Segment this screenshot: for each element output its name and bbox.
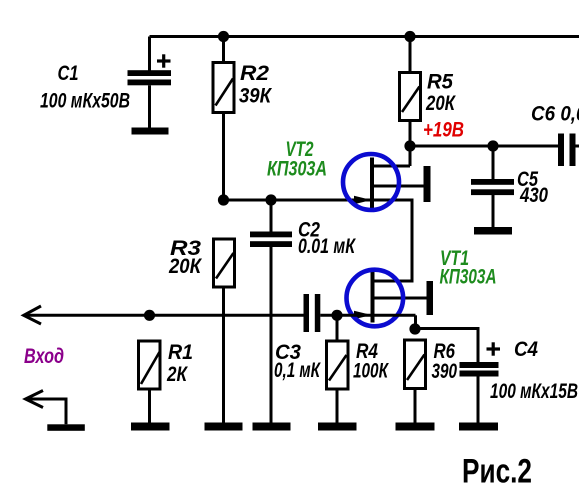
wire: VT1 source down to output node — [414, 315, 417, 329]
resistor R4 — [327, 341, 349, 389]
wire: C2 bottom lead — [270, 247, 273, 423]
svg-text:0.01 мК: 0.01 мК — [298, 235, 357, 258]
wire: VT1 substrate stub — [373, 297, 427, 300]
capacitor C4 — [460, 362, 499, 377]
wire: input wire to C3 — [24, 314, 304, 317]
wire: R6 bottom lead — [414, 389, 417, 423]
transistor VT2 body circle — [343, 154, 399, 210]
svg-text:КП303А: КП303А — [267, 158, 327, 181]
ground: C1 terminal bar — [132, 128, 169, 135]
transistor VT2 gate arrow — [354, 196, 372, 204]
transistor VT1 gate arrow — [354, 311, 372, 319]
node: rail junction at R2 — [218, 31, 229, 42]
resistor R5 — [400, 73, 421, 121]
ground: C2 ground bar — [253, 423, 291, 431]
wire: VT2 substrate stub — [371, 185, 424, 188]
VT2 substrate bar — [424, 166, 431, 202]
svg-text:100 мКх15В: 100 мКх15В — [490, 380, 578, 403]
node: junction R6 / C4 — [409, 323, 420, 334]
transistor VT2 channel — [370, 158, 374, 210]
svg-text:Вход: Вход — [24, 345, 64, 368]
svg-text:R2: R2 — [240, 62, 269, 85]
svg-text:20К: 20К — [425, 92, 456, 115]
wire: top supply rail — [150, 35, 579, 38]
wire: R4 top lead — [336, 315, 339, 341]
transistor VT1 body circle — [347, 270, 404, 327]
wire: C1 top lead — [148, 37, 151, 72]
resistor R2 — [213, 63, 234, 113]
input arrow terminal — [24, 306, 41, 324]
svg-text:C6 0,01: C6 0,01 — [531, 103, 579, 126]
node: junction R1 top — [144, 310, 155, 321]
svg-text:Рис.2: Рис.2 — [462, 453, 532, 491]
node: junction C5 — [487, 140, 498, 151]
node: +19V junction at R5 — [404, 140, 415, 151]
capacitor C5 — [471, 179, 514, 195]
C4 polarity plus sign — [487, 342, 501, 355]
input ground arrow terminal — [26, 391, 44, 408]
svg-text:+19В: +19В — [423, 119, 464, 142]
wire: C5 top lead — [492, 146, 495, 179]
wire: R2 bottom lead — [222, 113, 225, 201]
wire: VT2 drain stub — [371, 165, 410, 168]
wire: R2 top lead — [222, 37, 225, 63]
capacitor C3 — [304, 294, 321, 332]
wire: VT2 source to VT1 drain — [411, 199, 414, 282]
transistor VT1 channel — [371, 271, 375, 323]
capacitor C6 — [558, 134, 576, 167]
resistor R1 — [139, 341, 161, 389]
svg-text:430: 430 — [519, 184, 548, 207]
svg-text:100К: 100К — [353, 360, 390, 383]
resistor R6 — [405, 340, 426, 389]
ground: R4 ground bar — [318, 423, 357, 431]
svg-text:R5: R5 — [427, 71, 453, 94]
resistor R3 — [214, 239, 235, 287]
wire: VT1 gate wire from C3 through channel to source turn — [320, 314, 415, 317]
ground: C5 terminal bar — [474, 227, 512, 235]
svg-text:39К: 39К — [239, 85, 273, 108]
node: junction R4 top / VT1 gate — [331, 310, 342, 321]
wire: R5 top lead — [409, 37, 412, 73]
node: rail junction at R5 — [404, 31, 415, 42]
node: junction C2 top — [265, 194, 276, 205]
svg-text:2К: 2К — [166, 363, 189, 386]
wire: C5 bottom lead — [492, 195, 495, 227]
wire: R4 bottom lead — [336, 389, 339, 423]
wire: output node to C4 — [415, 329, 478, 363]
ground: lower input ground bar — [47, 424, 85, 431]
capacitor C2 — [250, 232, 292, 248]
ground: R3 ground bar — [205, 423, 243, 431]
wire: R5 bottom lead down to VT2 drain level — [409, 121, 412, 167]
C1 polarity plus sign — [157, 54, 171, 67]
wire: +19V bus to output caps — [410, 145, 558, 148]
svg-text:C1: C1 — [58, 62, 79, 85]
VT1 substrate bar — [427, 281, 434, 315]
ground: C4 ground bar — [459, 423, 498, 431]
wire: lower input stub to ground — [26, 399, 67, 424]
ground: R6 ground bar — [396, 423, 435, 431]
wire: R1 bottom lead — [148, 389, 151, 423]
svg-text:R1: R1 — [168, 341, 193, 364]
wire: R3 bottom lead — [222, 287, 225, 423]
svg-text:0,1 мК: 0,1 мК — [274, 359, 322, 382]
svg-text:КП303А: КП303А — [440, 266, 497, 289]
wire: VT2 gate wire from R2/R3 node to channel and source continuation — [224, 199, 413, 202]
ground: R1 ground bar — [131, 423, 170, 431]
wire: VT1 drain stub — [372, 280, 414, 283]
wire: C6 output stub — [576, 145, 579, 148]
node: junction R2/R3/gate — [218, 194, 229, 205]
svg-text:100 мКх50В: 100 мКх50В — [40, 90, 130, 113]
wire: C1 bottom lead — [148, 85, 151, 127]
svg-text:390: 390 — [432, 360, 458, 383]
svg-text:C4: C4 — [514, 338, 538, 361]
capacitor C1 — [128, 70, 172, 85]
wire: C2 top lead — [270, 200, 273, 232]
wire: C4 bottom lead — [477, 377, 480, 423]
svg-text:20К: 20К — [168, 255, 203, 278]
